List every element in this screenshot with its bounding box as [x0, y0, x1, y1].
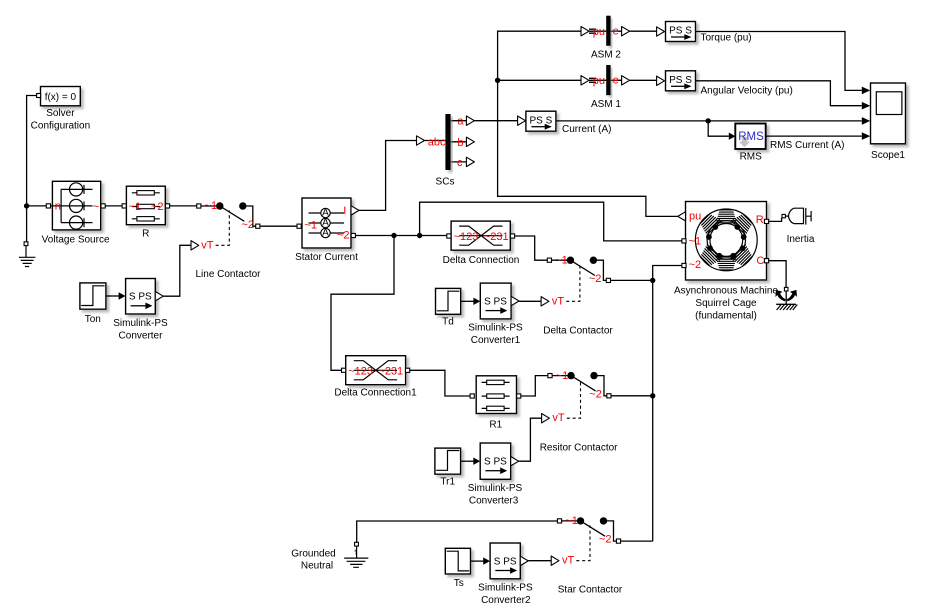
- port Delta Connection1 ~123: [342, 368, 346, 372]
- wire node C to machine ~1: [420, 202, 682, 241]
- block Simulink-PS Converter2: [490, 543, 520, 579]
- port Delta Connection1 ~231: [406, 368, 410, 372]
- port Stator Current I output: [351, 206, 359, 215]
- svg-text:~123: ~123: [348, 365, 373, 377]
- block PS-Simulink Converter Angular Velocity: [657, 76, 665, 85]
- svg-text:Tr1: Tr1: [440, 476, 455, 487]
- wire Simulink-PS Converter to Line Contactor vT: [163, 245, 191, 296]
- svg-text:~1: ~1: [689, 235, 702, 247]
- port Delta Connection ~231: [510, 234, 514, 238]
- wire Delta Connection to Delta Contactor: [515, 236, 548, 260]
- svg-text:pu: pu: [689, 210, 701, 222]
- wire node B to Delta Connection1: [331, 236, 394, 371]
- svg-text:vT: vT: [201, 239, 214, 251]
- port Delta Connection ~123: [447, 234, 451, 238]
- node D junction: [706, 118, 711, 123]
- wire R to Line Contactor: [170, 205, 197, 207]
- block PS-Simulink Converter Current: [518, 116, 526, 125]
- port R1 ~1: [470, 394, 474, 398]
- svg-text:Td: Td: [442, 316, 454, 327]
- wire Simulink-PS Converter3 to Resitor Contactor vT: [519, 418, 542, 461]
- node F junction: [650, 278, 655, 283]
- svg-text:n: n: [55, 200, 61, 212]
- svg-text:Ton: Ton: [85, 314, 101, 325]
- svg-text:~2: ~2: [242, 219, 255, 231]
- port Voltage Source n: [46, 204, 50, 208]
- svg-text:c: c: [457, 157, 463, 169]
- port ASM 2 out: [622, 27, 630, 36]
- block step source Ton: [80, 283, 106, 309]
- svg-text:Torque (pu): Torque (pu): [701, 33, 752, 44]
- svg-text:R1: R1: [489, 420, 502, 431]
- port Solver Configuration: [37, 94, 41, 98]
- red port labels: [55, 26, 765, 567]
- wire machine pu to ASM selectors: [498, 31, 678, 216]
- svg-text:ASM 1: ASM 1: [591, 99, 621, 110]
- svg-text:b: b: [457, 137, 463, 149]
- block Voltage Source: [52, 181, 100, 230]
- port Stator Current ~2: [351, 233, 355, 237]
- wire Simulink-PS Converter2 to Star Contactor vT: [528, 560, 551, 562]
- node A junction: [24, 203, 29, 208]
- block step source Ts: [445, 548, 470, 574]
- svg-text:PS S: PS S: [669, 75, 692, 86]
- wire node D to RMS: [708, 121, 735, 140]
- bus selector ASM 2: [581, 27, 622, 36]
- svg-text:pu: pu: [593, 75, 605, 87]
- svg-text:R: R: [142, 229, 149, 240]
- svg-text:Simulink-PS: Simulink-PS: [468, 483, 523, 494]
- wire Ton to Simulink-PS Converter: [106, 292, 126, 299]
- svg-text:S PS: S PS: [484, 296, 507, 307]
- svg-text:Stator Current: Stator Current: [295, 252, 358, 263]
- svg-text:I: I: [343, 205, 346, 217]
- svg-text:Squirrel Cage: Squirrel Cage: [695, 298, 757, 309]
- port ASM 1 out: [622, 76, 630, 85]
- svg-text:Converter3: Converter3: [469, 495, 519, 506]
- switch Line Contactor: [191, 202, 260, 250]
- port R ~2: [165, 204, 169, 208]
- block Inertia: [782, 208, 811, 225]
- svg-text:Simulink-PS: Simulink-PS: [468, 323, 523, 334]
- svg-text:f(x) = 0: f(x) = 0: [45, 92, 77, 103]
- svg-text:pu: pu: [593, 26, 605, 38]
- svg-text:Delta Connection1: Delta Connection1: [334, 387, 417, 398]
- svg-text:vT: vT: [552, 412, 565, 424]
- svg-text:Converter2: Converter2: [481, 595, 531, 606]
- wire machine C to reference: [769, 261, 787, 288]
- svg-text:vT: vT: [562, 555, 575, 567]
- wire Voltage Source to R: [105, 205, 122, 207]
- grounded neutral reference: [344, 542, 368, 567]
- svg-text:Line Contactor: Line Contactor: [195, 269, 261, 280]
- svg-text:~1: ~1: [304, 220, 317, 232]
- svg-text:Delta Connection: Delta Connection: [443, 255, 520, 266]
- svg-text:RMS: RMS: [740, 152, 763, 163]
- block Simulink-PS Converter1: [480, 283, 511, 319]
- svg-text:abc: abc: [428, 136, 446, 148]
- svg-text:vT: vT: [552, 295, 565, 307]
- wire machine R to Inertia: [769, 218, 782, 222]
- svg-text:Simulink-PS: Simulink-PS: [478, 583, 533, 594]
- port machine ~1: [682, 239, 686, 243]
- wire Delta Contactor to node F: [611, 279, 653, 281]
- svg-text:~1: ~1: [565, 515, 578, 527]
- svg-text:S PS: S PS: [484, 457, 507, 468]
- port machine R: [764, 219, 768, 223]
- block Delta Connection1: [346, 356, 406, 385]
- port SCs c: [466, 157, 474, 166]
- switch Delta Contactor: [541, 257, 610, 307]
- svg-text:(fundamental): (fundamental): [695, 310, 757, 321]
- block resistor R: [126, 186, 165, 225]
- block Stator Current sensor: [302, 198, 351, 248]
- wire Torque to Scope1: [696, 32, 871, 95]
- svg-text:Converter: Converter: [119, 330, 164, 341]
- wire Stator Current ~2 bus: [355, 235, 446, 237]
- svg-text:e: e: [613, 26, 619, 38]
- svg-text:Configuration: Configuration: [31, 121, 90, 132]
- svg-text:S PS: S PS: [494, 556, 517, 567]
- svg-text:~123: ~123: [454, 231, 479, 243]
- svg-text:Angular Velocity (pu): Angular Velocity (pu): [701, 86, 793, 97]
- node B junction: [391, 233, 396, 238]
- port R ~1: [122, 204, 126, 208]
- svg-text:PS S: PS S: [530, 115, 553, 126]
- block PS-Simulink Converter Torque: [657, 27, 665, 36]
- wire node A to Voltage Source: [27, 205, 48, 207]
- port machine ~2: [682, 263, 686, 267]
- svg-text:Simulink-PS: Simulink-PS: [113, 318, 168, 329]
- svg-text:Neutral: Neutral: [301, 560, 333, 571]
- block Scope1: [871, 83, 906, 144]
- switch Star Contactor: [551, 517, 620, 565]
- block step source Tr1: [435, 448, 461, 474]
- wire RMS to Scope1: [766, 132, 871, 140]
- svg-text:a: a: [457, 116, 464, 128]
- block step source Td: [436, 288, 461, 314]
- svg-text:PS S: PS S: [669, 26, 692, 37]
- svg-text:Delta Contactor: Delta Contactor: [543, 326, 613, 337]
- wire SCs a to PS-Simulink Converter: [474, 120, 517, 122]
- svg-text:~2: ~2: [337, 230, 350, 242]
- bus selector ASM 1: [581, 76, 622, 85]
- svg-text:R: R: [756, 214, 764, 226]
- svg-text:~2: ~2: [151, 201, 164, 213]
- svg-text:C: C: [756, 255, 764, 267]
- wire Tr1 to Simulink-PS Converter3: [461, 458, 481, 465]
- svg-text:SCs: SCs: [436, 177, 455, 188]
- block Solver Configuration: [41, 87, 81, 106]
- svg-text:Resitor Contactor: Resitor Contactor: [540, 442, 618, 453]
- wire Angular Velocity to Scope1: [696, 81, 871, 110]
- block Asynchronous Machine Squirrel Cage: [686, 202, 767, 281]
- wire Simulink-PS Converter1 to Delta Contactor vT: [519, 300, 541, 302]
- svg-text:~231: ~231: [484, 231, 509, 243]
- port SCs a: [466, 116, 474, 125]
- svg-text:Scope1: Scope1: [871, 150, 905, 161]
- svg-text:~: ~: [93, 201, 99, 213]
- svg-text:RMS Current (A): RMS Current (A): [770, 140, 844, 151]
- mechanical rotational reference: [776, 287, 797, 310]
- wire Star Contactor to bus: [621, 540, 653, 542]
- svg-text:Asynchronous Machine: Asynchronous Machine: [674, 286, 778, 297]
- bus selector SCs: [417, 121, 467, 162]
- wire Current (A) to Scope1: [556, 117, 870, 125]
- wire machine ~2 down bus: [653, 266, 682, 542]
- svg-text:Ts: Ts: [454, 578, 464, 589]
- svg-text:Grounded: Grounded: [291, 549, 335, 560]
- block RMS: [735, 124, 765, 150]
- port R1 ~2: [517, 394, 521, 398]
- svg-text:ASM 2: ASM 2: [591, 50, 621, 61]
- svg-text:Star Contactor: Star Contactor: [558, 585, 623, 596]
- svg-text:~1: ~1: [129, 201, 142, 213]
- block Delta Connection: [451, 221, 510, 250]
- wire Resitor Contactor to node G: [611, 395, 653, 397]
- svg-text:A: A: [322, 228, 329, 239]
- svg-text:e: e: [613, 75, 619, 87]
- svg-text:Voltage Source: Voltage Source: [42, 235, 110, 246]
- svg-text:~1: ~1: [556, 370, 569, 382]
- wire Ts to Simulink-PS Converter2: [471, 557, 491, 564]
- port Stator Current ~1: [297, 224, 301, 228]
- wire Grounded Neutral to Star Contactor: [357, 521, 558, 542]
- port machine C: [764, 259, 768, 263]
- port machine pu: [678, 212, 686, 221]
- svg-text:~2: ~2: [599, 534, 612, 546]
- svg-text:~2: ~2: [689, 259, 702, 271]
- wire R1 to Resitor Contactor: [521, 376, 548, 396]
- wire Line Contactor to Stator Current: [260, 225, 297, 227]
- node G junction: [650, 393, 655, 398]
- block Simulink-PS Converter3: [480, 443, 511, 479]
- wire node E to ASM 1: [498, 79, 581, 81]
- wire Td to Simulink-PS Converter1: [461, 298, 481, 305]
- svg-text:Converter1: Converter1: [471, 335, 521, 346]
- svg-text:~231: ~231: [378, 365, 403, 377]
- svg-text:~2: ~2: [589, 273, 602, 285]
- svg-text:~2: ~2: [589, 388, 602, 400]
- switch Resitor Contactor: [542, 372, 611, 423]
- svg-text:~1: ~1: [555, 254, 568, 266]
- svg-text:Solver: Solver: [46, 108, 75, 119]
- svg-text:~1: ~1: [205, 200, 218, 212]
- ground electrical reference: [19, 242, 36, 267]
- svg-text:S PS: S PS: [129, 292, 152, 303]
- wire Delta Connection1 to R1: [410, 370, 470, 396]
- node C junction: [417, 233, 422, 238]
- wire Stator Current I to SCs: [359, 141, 417, 211]
- wire Solver Configuration to node A: [27, 96, 37, 242]
- wire ASM 2 to PS-Simulink: [630, 30, 657, 32]
- node E junction: [495, 78, 500, 83]
- port Voltage Source ~: [101, 204, 105, 208]
- svg-text:RMS: RMS: [738, 131, 764, 143]
- block Simulink-PS Converter: [126, 279, 156, 315]
- port SCs b: [466, 137, 474, 146]
- svg-text:Inertia: Inertia: [787, 234, 815, 245]
- svg-text:Current (A): Current (A): [562, 124, 611, 135]
- block resistor R1: [476, 376, 516, 414]
- wire ASM 1 to PS-Simulink: [630, 79, 657, 81]
